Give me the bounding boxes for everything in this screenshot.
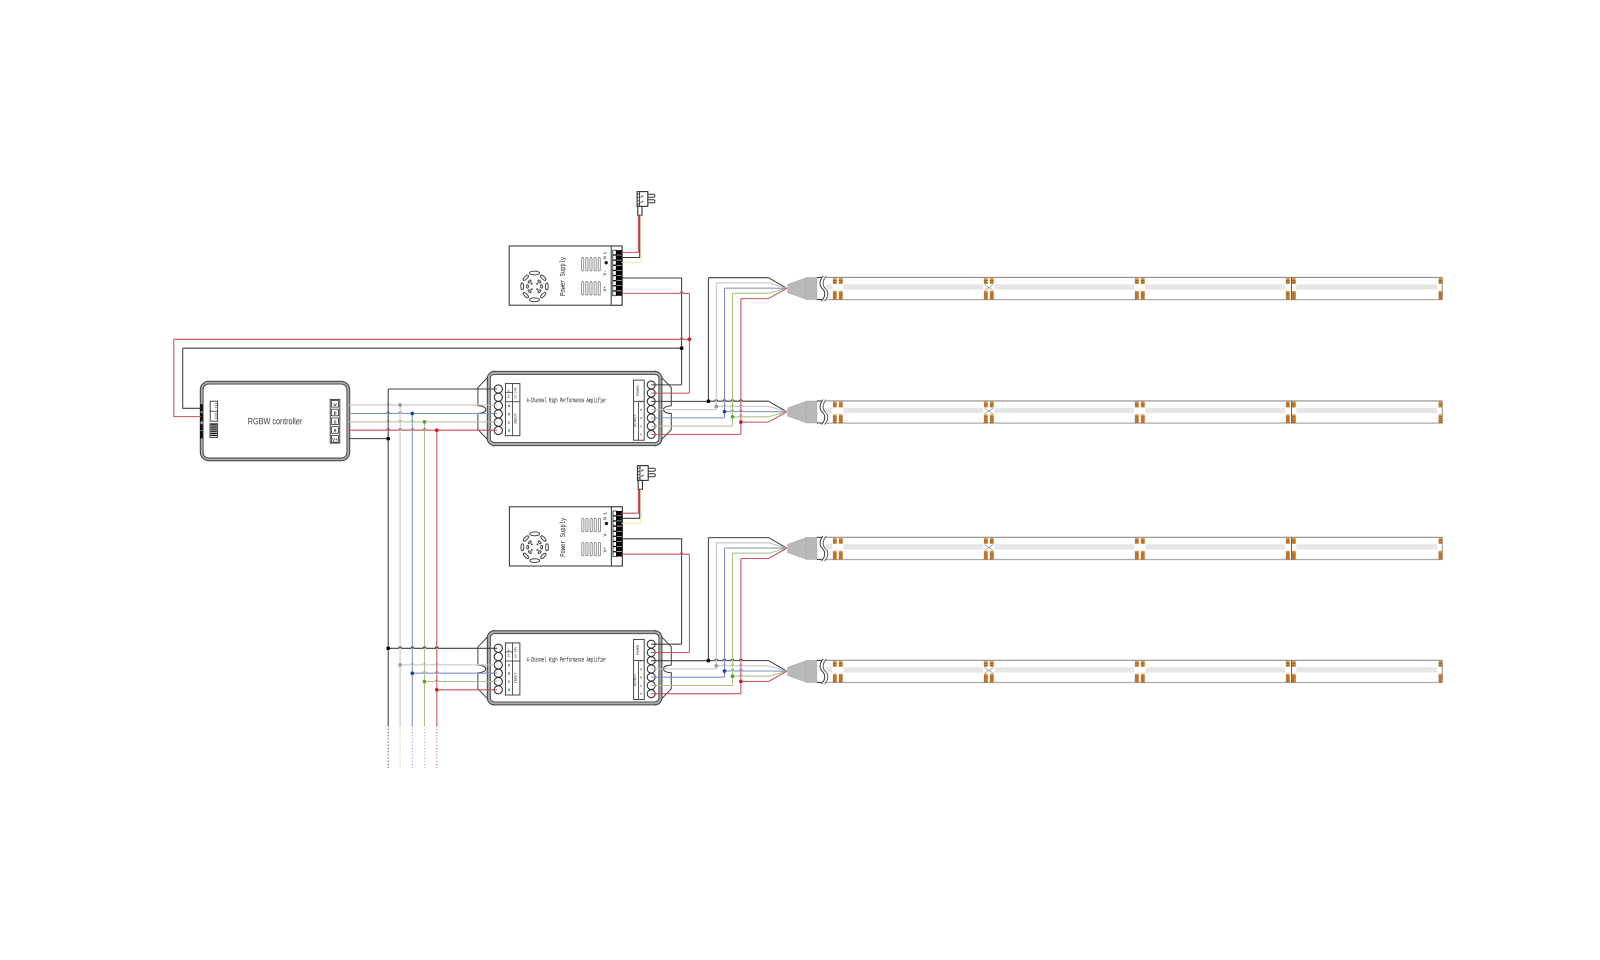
break squiggle of LED4	[820, 659, 825, 684]
wire R amp-A2 output to strips	[651, 693, 741, 695]
wire V- black PSU to amplifier	[622, 539, 682, 644]
terminal strip of PS2	[611, 507, 622, 566]
LED strip LED4	[788, 659, 1443, 684]
right mounting ear of A1	[656, 371, 672, 445]
input terminal block of A2	[505, 643, 520, 695]
junction dot G amp-A2	[731, 674, 735, 678]
output screw terminals of A2	[647, 640, 655, 648]
wire V- black PSU to amplifier	[622, 278, 682, 385]
LED strip LED2	[788, 400, 1443, 425]
junction dot V+ amp-A1	[707, 399, 711, 403]
svg-text:Power Supply: Power Supply	[560, 256, 568, 295]
junction dot G amp-A1	[731, 415, 735, 419]
fan of PS1	[521, 271, 548, 302]
svg-text:N: N	[602, 517, 608, 520]
junction dot B amp-A1	[723, 410, 727, 414]
fan of PS2	[521, 532, 548, 563]
svg-text:R: R	[334, 428, 337, 434]
strip body of LED4	[826, 659, 1442, 661]
svg-text:V+ V-: V+ V-	[507, 388, 511, 398]
input terminal block of A1	[505, 384, 520, 436]
strip body of LED3	[826, 536, 1442, 538]
svg-text:W: W	[334, 402, 337, 408]
wire V+ red PSU to amplifier	[622, 292, 690, 293]
wire W controller to amplifiers	[349, 404, 497, 405]
svg-text:G: G	[640, 685, 642, 688]
svg-text:4-Channel High Performance Amp: 4-Channel High Performance Amplifier	[526, 397, 606, 405]
svg-text:R: R	[640, 434, 642, 437]
svg-text:Power Supply: Power Supply	[560, 517, 568, 556]
svg-text:4-Channel High Performance Amp: 4-Channel High Performance Amplifier	[526, 657, 606, 665]
svg-text:POWER: POWER	[637, 386, 641, 396]
cable connector of LED4	[788, 661, 806, 682]
output terminal block of A2	[634, 639, 645, 699]
amplifier A1	[478, 371, 671, 445]
solder pads of LED3	[833, 538, 837, 544]
LED strip LED3	[788, 536, 1443, 561]
terminal strip of PS1	[611, 246, 622, 305]
wire V+ red PSU to amplifier	[622, 553, 690, 554]
strip body of LED1	[826, 276, 1442, 278]
AC plug P2	[638, 466, 656, 490]
svg-text:OUTPUT: OUTPUT	[634, 674, 638, 686]
power supply PS1	[509, 246, 622, 305]
junction dot B amp-A2	[723, 669, 727, 673]
solder pads of LED4	[833, 661, 837, 667]
junction dots W	[398, 403, 402, 407]
svg-text:B: B	[640, 676, 642, 679]
svg-text:V-: V-	[602, 270, 608, 276]
junction dot R amp-A1	[739, 420, 743, 424]
long bus wire V- black to controller	[183, 347, 682, 349]
svg-text:INPUT: INPUT	[515, 672, 519, 684]
left mounting ear of A2	[478, 631, 494, 705]
power supply PS2	[509, 507, 622, 566]
RGBW controller U1	[200, 381, 350, 461]
svg-text:R: R	[640, 693, 642, 696]
bus junction dots	[680, 346, 684, 350]
svg-text:W: W	[640, 409, 642, 412]
internal connector blocks of U1	[210, 401, 217, 421]
wire V+ amp-A2 output to strips	[651, 660, 708, 662]
junction dots R	[435, 428, 439, 432]
wire V+ (black) controller to amplifiers	[349, 438, 389, 440]
svg-text:OUTPUT: OUTPUT	[634, 414, 638, 426]
wire V+ amp-A1 output to strips	[651, 400, 708, 402]
junction dot R amp-A2	[739, 680, 743, 684]
svg-text:G: G	[334, 419, 337, 425]
LED strip LED1	[788, 276, 1443, 301]
svg-text:V+: V+	[602, 286, 608, 292]
break squiggle of LED2	[820, 400, 825, 425]
break squiggle of LED3	[820, 536, 825, 561]
vent slats of PS1	[582, 258, 584, 271]
left mounting ear of A1	[478, 371, 494, 445]
svg-text:W: W	[640, 668, 642, 671]
cable connector of LED3	[788, 538, 806, 559]
svg-text:V-: V-	[602, 531, 608, 537]
svg-text:INPUT: INPUT	[515, 412, 519, 424]
junction dots V+ black	[386, 437, 390, 441]
enclosure body of A1	[489, 373, 661, 444]
vent slats of PS2	[582, 518, 584, 531]
long bus wire V+ red to controller	[174, 338, 690, 339]
svg-text:12-24V: 12-24V	[513, 647, 517, 659]
right mounting ear of A2	[656, 631, 672, 705]
power input contacts of U1	[200, 404, 203, 411]
wire G amp-A1 output to strips	[651, 425, 732, 427]
enclosure body of A2	[489, 632, 661, 703]
wire G amp-A2 output to strips	[651, 685, 732, 687]
svg-text:L: L	[602, 251, 608, 254]
wire R controller to amplifiers	[349, 429, 497, 430]
svg-text:G: G	[640, 425, 642, 428]
solder pads of LED2	[833, 402, 837, 408]
svg-text:B: B	[334, 411, 337, 417]
plug leads L N GND	[622, 489, 642, 523]
wire B amp-A1 output to strips	[651, 417, 724, 419]
cable connector of LED1	[788, 278, 806, 299]
plug leads L N GND	[622, 215, 642, 262]
AC plug P1	[637, 192, 655, 216]
wire R amp-A1 output to strips	[651, 433, 741, 435]
svg-text:V+: V+	[639, 660, 643, 663]
output terminal block of A1	[634, 380, 645, 440]
svg-text:N: N	[602, 256, 608, 259]
solder pads of LED1	[833, 278, 837, 284]
output terminal column W B G R V+ of U1	[330, 399, 340, 443]
amplifier A2	[478, 631, 671, 705]
junction dots B	[410, 412, 414, 416]
input screw terminals of A1	[494, 385, 502, 393]
junction dot W amp-A2	[714, 664, 718, 668]
svg-text:V+: V+	[639, 401, 643, 404]
wire W amp-A2 output to strips	[651, 668, 716, 670]
svg-text:12-24V: 12-24V	[513, 387, 517, 399]
svg-text:RGBW controller: RGBW controller	[248, 416, 303, 426]
break squiggle of LED1	[820, 276, 825, 301]
svg-text:L: L	[602, 512, 608, 515]
strip body of LED2	[826, 400, 1442, 402]
cable connector of LED2	[788, 401, 806, 422]
wire W amp-A1 output to strips	[651, 409, 716, 411]
wire G controller to amplifiers	[349, 420, 497, 421]
junction dots G	[423, 420, 427, 424]
input screw terminals of A2	[494, 644, 502, 652]
svg-text:V+ V-: V+ V-	[507, 648, 511, 658]
svg-text:B: B	[640, 417, 642, 420]
wire B amp-A2 output to strips	[651, 676, 724, 678]
svg-text:V+: V+	[332, 437, 338, 443]
junction dot W amp-A1	[714, 405, 718, 409]
svg-text:V+: V+	[602, 547, 608, 553]
junction dot V+ amp-A2	[707, 659, 711, 663]
wire B controller to amplifiers	[349, 412, 497, 413]
output screw terminals of A1	[647, 381, 655, 389]
svg-text:POWER: POWER	[637, 645, 641, 655]
